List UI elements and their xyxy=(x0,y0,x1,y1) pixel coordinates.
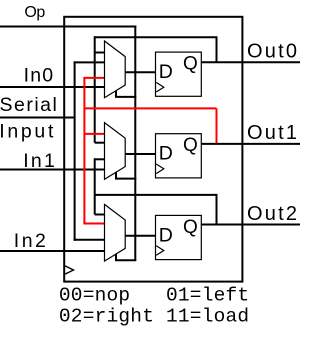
wire In0 xyxy=(0,86,105,88)
wire mux M3 output to D3 xyxy=(125,235,155,237)
wire Op select stub mux M3 xyxy=(115,254,136,260)
svg-text:Out2: Out2 xyxy=(247,203,299,225)
svg-text:Input: Input xyxy=(0,121,56,143)
svg-text:In0: In0 xyxy=(24,65,55,87)
svg-text:D: D xyxy=(159,224,173,246)
svg-text:Q: Q xyxy=(183,135,198,156)
wire Q1 red to mux M1 xyxy=(83,77,104,79)
wire Q1 red to mux M3 xyxy=(83,223,104,225)
multiplexer M2 xyxy=(105,123,126,180)
wire Q0 feedback top horizontal xyxy=(95,36,217,38)
U1 clock triangle xyxy=(156,82,164,92)
D flip-flop U1 box xyxy=(156,52,202,96)
multiplexer M3 xyxy=(105,204,126,261)
wire Q0 vertical bus xyxy=(94,36,96,142)
wire Serial vertical bus xyxy=(74,61,76,240)
wire Op select stub mux M2 xyxy=(115,172,136,178)
wire Q2 vertical bus xyxy=(94,158,96,214)
wire Op vertical bus xyxy=(134,26,136,261)
svg-text:00=nop 01=left: 00=nop 01=left xyxy=(59,285,249,307)
svg-text:02=right 11=load: 02=right 11=load xyxy=(59,306,249,328)
wire Op select stub mux M1 xyxy=(115,91,136,97)
U3 clock triangle xyxy=(156,246,164,256)
wire mux M2 output to D2 xyxy=(125,153,155,155)
wire Q2 shift to mux M2 xyxy=(95,158,105,160)
chip outer box U0 xyxy=(64,17,242,282)
wire Q1 red horizontal from Out1 xyxy=(84,107,216,109)
svg-text:D: D xyxy=(159,61,173,83)
wire Q1 red right vertical xyxy=(216,108,218,143)
svg-text:Serial: Serial xyxy=(0,94,58,116)
U2 clock triangle xyxy=(156,164,164,174)
wire Q2 output Out1 xyxy=(201,143,300,145)
wire Q2 feedback right vertical xyxy=(216,194,218,225)
wire Serial Input horizontal xyxy=(0,117,76,119)
D flip-flop U3 box xyxy=(156,215,202,259)
wire Q2 feedback horizontal xyxy=(95,194,217,196)
wire Q0 nop stub to mux M1 xyxy=(95,52,105,54)
wire Q0 shift to mux M2 xyxy=(95,142,105,144)
wire mux M1 output to D1 xyxy=(125,71,155,73)
svg-text:Op: Op xyxy=(24,4,45,21)
wire Serial to mux M1 xyxy=(74,61,105,63)
wire Q0 feedback right vertical xyxy=(216,36,218,62)
wire Q1 output Out0 xyxy=(201,61,300,63)
svg-text:Q: Q xyxy=(183,217,198,238)
wire In2 xyxy=(0,250,105,252)
D flip-flop U2 box xyxy=(156,134,202,178)
multiplexer M1 xyxy=(105,41,126,98)
svg-text:Q: Q xyxy=(183,54,198,75)
svg-text:D: D xyxy=(159,143,173,165)
wire Q1 red vertical bus xyxy=(83,78,85,224)
wire Op horizontal xyxy=(0,26,136,28)
wire In1 xyxy=(0,169,105,171)
wire Q1 red nop to mux M2 xyxy=(84,133,104,135)
svg-text:Out0: Out0 xyxy=(247,41,299,63)
clock input triangle on outer box xyxy=(65,266,74,274)
svg-text:In2: In2 xyxy=(14,230,49,252)
wire Q3 output Out2 xyxy=(201,224,300,226)
wire Q2 nop stub to mux M3 xyxy=(95,214,105,216)
svg-text:Out1: Out1 xyxy=(247,122,299,144)
wire Serial to mux M3 xyxy=(74,239,105,241)
